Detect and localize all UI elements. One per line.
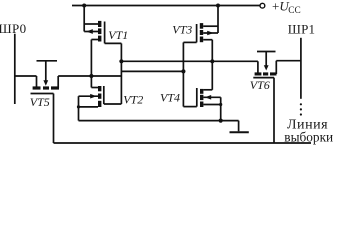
svg-text:ШР0: ШР0: [0, 21, 27, 36]
label: word line (Liniya vyborki): [284, 118, 333, 145]
node: junction dot VT2 source/substrate: [77, 105, 80, 108]
wire: VT6 to bit line SHR1: [276, 60, 301, 62]
transistor Q VT2 (n-channel driver): [79, 86, 104, 107]
transistor Q VT3 (p-channel load): [197, 23, 218, 42]
wire: +Ucc top rail: [72, 5, 260, 7]
svg-text:выборки: выборки: [284, 130, 333, 145]
wire: VT3 source/substrate to rail: [217, 6, 219, 34]
wire: VT2 gate lead to gate bus: [104, 103, 122, 105]
svg-text:VT6: VT6: [250, 78, 270, 92]
wire: VT1/VT2 gate bus vertical: [120, 43, 122, 104]
wire: VT6 gate lead down to word line: [273, 78, 275, 143]
svg-text:VT2: VT2: [123, 93, 143, 107]
wire: VT4 gate lead to right gate bus: [183, 106, 196, 108]
svg-text:CC: CC: [288, 6, 300, 16]
transistor Q VT6 (access): [253, 52, 276, 78]
node: SHR1 continuation dots: [300, 103, 302, 115]
wire: node A horizontal lower segment (VT5 to gate bus jog): [58, 75, 121, 77]
node: junction dot gate bus / node B wire: [119, 59, 123, 63]
wire: VT5 gate lead down to word line: [53, 94, 55, 144]
wire: VT4 source/substrate down to ground rail: [220, 97, 222, 120]
transistor Q VT4 (n-channel driver): [197, 88, 221, 107]
wire: VT3/VT4 gate bus vertical: [182, 42, 184, 106]
label: +Ucc: [272, 0, 301, 16]
wire: ground rail horizontal: [79, 120, 239, 122]
terminal: +Ucc open circle: [260, 3, 265, 8]
wire: node A vertical (VT1 drain to VT2 drain): [90, 40, 92, 88]
ground symbol: [230, 131, 249, 133]
wire: SHR0 branch to VT5: [15, 75, 37, 77]
svg-text:VT4: VT4: [160, 90, 180, 104]
svg-text:VT3: VT3: [172, 23, 192, 37]
node: junction dot node A / bit wire: [89, 74, 93, 78]
node: junction dot rail/VT3 source: [216, 4, 220, 8]
wire: node B vertical (VT3 drain to VT4 drain): [211, 40, 213, 90]
node: junction dot node B wire / VT3-VT4 drains: [210, 59, 214, 63]
wire: VT1 source/substrate to rail: [83, 6, 85, 32]
wire: bit line SHR1 vertical: [300, 38, 302, 99]
wire: node B horizontal (to VT6): [121, 60, 258, 62]
wire: VT1 gate lead to gate bus: [105, 42, 122, 44]
node: junction dot VT4 source/substrate: [219, 103, 222, 106]
transistor Q VT5 (access): [31, 61, 60, 94]
svg-text:VT5: VT5: [30, 95, 50, 109]
wire: word line (select line): [54, 142, 312, 144]
node: junction dot node A wire / right gate bus: [181, 69, 185, 73]
wire: node A horizontal upper segment to VT3/VT4 gate bus: [121, 70, 183, 72]
node: junction dot ground rail / VT4 source: [219, 119, 223, 123]
transistor Q VT1 (p-channel load): [84, 21, 104, 44]
wire: ground rail drop: [238, 121, 240, 132]
wire: VT3 gate lead to right gate bus: [183, 41, 196, 43]
wire: VT2 source/substrate down to ground rail: [78, 96, 80, 120]
svg-text:ШР1: ШР1: [288, 21, 315, 36]
node: junction dot rail/VT1 source: [82, 4, 86, 8]
svg-text:VT1: VT1: [108, 28, 128, 42]
wire: bit line SHR0 vertical: [14, 34, 16, 104]
